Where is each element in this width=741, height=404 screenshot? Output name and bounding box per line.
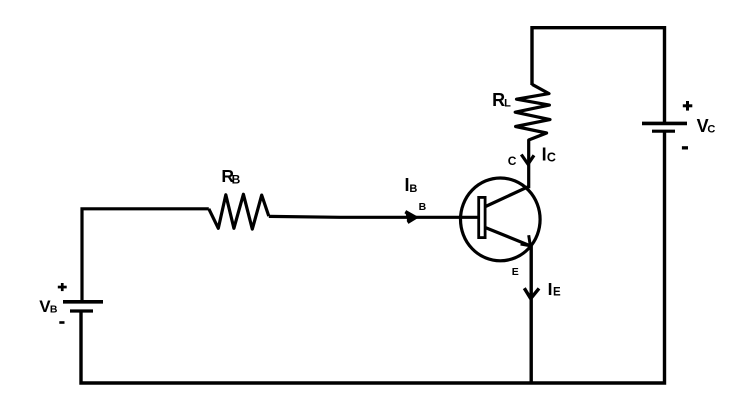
svg-text:C: C xyxy=(508,154,517,168)
svg-text:B: B xyxy=(419,201,427,213)
svg-text:C: C xyxy=(547,150,556,164)
svg-text:C: C xyxy=(707,124,715,136)
svg-text:B: B xyxy=(50,303,58,315)
svg-text:I: I xyxy=(542,144,547,164)
svg-text:B: B xyxy=(409,183,417,195)
svg-text:B: B xyxy=(232,172,241,186)
svg-text:E: E xyxy=(512,266,519,278)
svg-text:L: L xyxy=(504,98,511,110)
svg-text:E: E xyxy=(553,287,561,299)
svg-text:I: I xyxy=(548,279,553,299)
